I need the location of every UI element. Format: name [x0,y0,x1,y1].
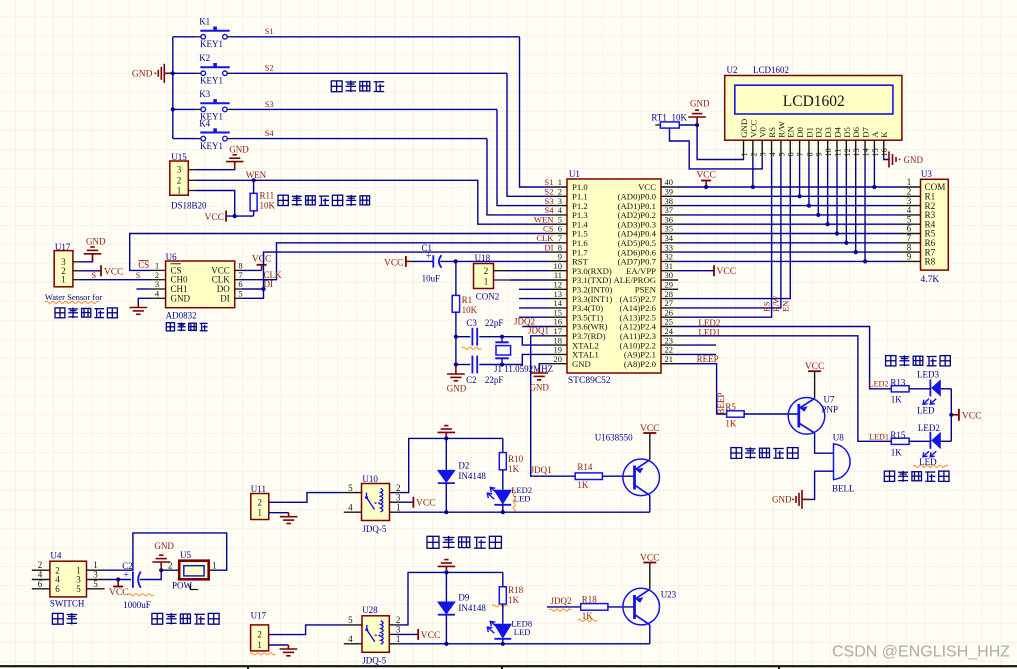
transistor U23 [623,588,660,625]
IC U6 AD0832 [166,261,235,308]
pin 10 U1 [550,270,567,272]
wire U1 pin26 to LCD RS [678,158,772,318]
svg-text:STC89C52: STC89C52 [568,376,611,386]
svg-text:POW: POW [172,581,193,591]
svg-text:AD0832: AD0832 [166,310,197,320]
svg-text:R15: R15 [890,430,906,440]
wire LED3 to VCC rail [950,389,952,415]
pin 12 U1 [550,288,567,290]
svg-text:VCC: VCC [640,424,660,434]
connector U17 water sensor [54,251,73,287]
connector U4 SWITCH [50,561,87,597]
svg-text:VCC: VCC [416,499,436,509]
resistor R14 1K [575,473,602,480]
pin 20 U1 [550,363,567,365]
ground GND below BELL [792,490,810,509]
svg-text:10: 10 [824,148,833,156]
wire K2 to net S2 [232,72,507,74]
svg-text:EN: EN [780,300,790,312]
sheet border bottom [0,665,1017,667]
svg-text:CON2: CON2 [476,292,500,302]
LED LED4 relay indicator [502,470,504,490]
svg-text:1K: 1K [891,447,903,457]
svg-text:KEY1: KEY1 [200,141,223,151]
wire U1 pin23 stub [678,344,716,346]
svg-text:VCC: VCC [962,411,982,421]
svg-text:GND: GND [690,99,710,109]
svg-text:R10: R10 [508,454,524,464]
svg-text:IN4148: IN4148 [458,471,486,481]
svg-text:5: 5 [76,584,81,594]
ground GND at U1 pin20 [539,364,550,369]
svg-text:3: 3 [759,152,768,156]
svg-text:1: 1 [61,275,66,285]
pin 36 U1 [661,223,678,225]
svg-text:K3: K3 [199,89,210,99]
wire net S from U17 pin1 to U6 CH0 [81,279,151,281]
svg-text:GND: GND [572,359,591,369]
svg-text:1K: 1K [725,419,737,429]
svg-text:KEY1: KEY1 [200,39,223,49]
pin 2 U3 [902,195,921,197]
wire LCD pin1 GND to RT1 node [697,125,743,160]
pin 32 U1 [661,260,678,262]
pin 22 U1 [661,353,678,355]
svg-text:+: + [123,570,129,581]
svg-text:BEEP: BEEP [716,393,726,415]
junction RT1 GND [695,123,699,127]
resistor R18 1K horizontal [581,604,608,611]
pin 13 U1 [550,298,567,300]
junction WEN R11 [252,178,256,182]
svg-text:7: 7 [796,152,805,156]
svg-text:1: 1 [396,634,401,644]
transistor U7 PNP [788,398,825,435]
resistor R10 1K vertical [502,438,504,452]
wire net S3 vertical to U1 pin3 [497,109,550,205]
svg-text:2: 2 [396,615,401,625]
svg-text:10K: 10K [260,201,276,211]
pin 1 U3 [902,186,921,188]
svg-text:C1: C1 [422,243,433,253]
junction rail D9 [444,570,448,574]
wire U1 pin12-15 stubs [519,288,550,290]
wire U10 pin2 up to flyback rail [398,438,503,492]
svg-text:5: 5 [93,579,98,589]
pin 29 U1 [661,288,678,290]
pin 31 U1 [661,270,678,272]
svg-text:LED2: LED2 [918,423,940,433]
pin 1 U10 [390,511,398,513]
pin 2 U28 [389,624,397,626]
pin 5 U6 [235,297,242,299]
label 蜂鸣器提醒 (buzzer alert) [731,447,798,459]
wire R14 to U16 base [602,475,634,477]
capacitor C3 22pF [456,336,470,338]
junction C3 left [454,335,458,339]
svg-text:GND: GND [154,541,174,551]
resistor R1 10K [452,295,459,312]
svg-text:CS: CS [138,260,149,270]
wire BELL pin2 to GND [811,471,834,499]
pin 33 U1 [661,251,678,253]
svg-text:2: 2 [749,152,758,156]
junction D9 bottom [444,642,448,646]
pin 39 U1 [661,195,678,197]
junction crystal top [500,335,504,339]
power VCC at U6 pin8 [242,269,262,271]
svg-text:LED: LED [917,406,935,416]
pin 7 U3 [902,242,921,244]
junction rail D2 [444,436,448,440]
wire net S2 vertical to U1 pin2 [507,73,550,196]
connector U17 lower [251,625,269,651]
svg-text:R13: R13 [890,378,906,388]
pin 30 U1 [661,279,678,281]
LED LED2 lower [909,440,930,442]
pin 3 U28 [389,633,397,635]
svg-text:GND: GND [86,237,106,247]
svg-text:VCC: VCC [204,213,224,223]
wire bus to K2 [173,72,196,74]
switch K4 KEY1 [200,128,229,141]
svg-text:VCC: VCC [384,258,404,268]
svg-text:C2: C2 [466,375,477,385]
label 溢水指示灯 (overflow indicator) [886,355,951,366]
svg-text:DS18B20: DS18B20 [171,200,207,210]
wire VCC row pin40 to U3 pin1 [678,186,902,188]
label 电源输入端 (power input) [152,613,219,625]
diode D2 IN4148 [445,438,447,470]
svg-text:VCC: VCC [640,554,660,564]
connector U15 DS18B20 [170,161,189,195]
svg-text:REEP: REEP [697,354,719,364]
svg-text:2: 2 [168,560,173,570]
label 缺水指示灯 (water-short indicator) [884,471,949,482]
LED LED3 [909,388,930,390]
svg-text:GND: GND [447,384,467,394]
pin 9 U3 [902,260,921,262]
wire relay2 output rail to U23 collector [397,643,650,645]
wire U16 collector down to rail [649,495,651,512]
pin 3 U10 [390,501,398,503]
junction LCD VCC [751,185,755,189]
wire key bus vertical [172,37,174,139]
transistor U16 8550 [623,459,660,496]
svg-text:JDQ-5: JDQ-5 [362,656,386,666]
svg-text:4: 4 [348,502,353,512]
pin stubs K1 [196,36,201,38]
pin 9 U1 [550,260,567,262]
wire C3 to XTAL2 (U1 pin18) [479,337,550,345]
svg-text:GND: GND [171,293,191,303]
svg-text:10K: 10K [672,113,688,123]
svg-text:VCC: VCC [421,631,441,641]
svg-text:D9: D9 [458,593,469,603]
svg-text:1: 1 [257,640,262,650]
svg-text:K: K [879,131,889,138]
svg-text:15: 15 [871,148,880,156]
junction VCC stem row40 [704,185,708,189]
junction LED6 bottom [501,642,505,646]
svg-text:16: 16 [880,148,889,156]
svg-text:U10: U10 [362,474,378,484]
svg-text:JDQ1: JDQ1 [531,465,552,475]
svg-text:LED2: LED2 [869,380,889,389]
svg-text:R5: R5 [725,402,736,412]
svg-text:1: 1 [212,560,217,570]
switch K2 KEY1 [200,63,229,76]
pin 26 U1 [661,316,678,318]
svg-text:R1: R1 [462,295,473,305]
svg-text:LCD1602: LCD1602 [753,65,789,75]
svg-text:3: 3 [396,492,401,502]
label 开关 (switch) [52,613,77,625]
svg-text:Water Sensor for: Water Sensor for [45,292,103,302]
svg-text:C3: C3 [466,318,477,328]
wire LCD pin16 K to GND [884,158,889,160]
svg-text:U11: U11 [251,484,266,494]
wire R1 to C3/C2 ground column [455,312,457,364]
svg-text:5: 5 [238,289,242,299]
svg-text:U1638550: U1638550 [595,433,633,443]
connector U18 CON2 [474,264,494,289]
power VCC above U23 [649,563,651,590]
wire net JDQ1 from U1 pin17 down to relay driver [531,336,576,476]
pin 6 U4 [32,588,50,590]
junction crystal bottom [500,362,504,366]
svg-text:U8: U8 [833,433,844,443]
pin 3 mark U5 [191,584,199,590]
pin 1 U6 [151,269,166,271]
capacitor C1 10uF polarized [412,260,433,262]
wires P0.0-P0.7 to resistor network U3 [678,195,902,197]
svg-text:R18: R18 [508,585,524,595]
svg-text:U4: U4 [50,550,61,560]
switch K3 KEY1 [200,99,229,112]
pin 35 U1 [661,233,678,235]
wire net CLK from U6 pin7 to U1 pin7 [242,243,550,280]
pin 38 U1 [661,205,678,207]
ground GND above diode D2 [438,426,456,437]
switch K1 KEY1 [200,27,229,40]
svg-text:GND: GND [772,495,792,505]
diode D9 IN4148 [445,572,447,601]
capacitor C2 22pF [456,364,470,366]
svg-text:JDQ2: JDQ2 [551,596,572,606]
pin 8 U6 [235,269,242,271]
svg-text:LED2: LED2 [698,318,720,328]
wire net LED2 from U1 pin25 to R13 [678,327,892,389]
LCD module U2 LCD1602 [725,76,902,141]
pin stubs K2 [196,72,201,74]
pin stubs K4 [196,138,201,140]
potentiometer RT1 10K [660,122,679,128]
svg-text:GND: GND [904,155,924,165]
pin 2 U1 [550,195,567,197]
svg-text:IN4148: IN4148 [458,603,486,613]
ground GND U11 [280,513,298,524]
svg-text:11: 11 [833,149,842,157]
junction VCC U15 pin1 [233,214,237,218]
wire U23 collector down to rail2 [649,625,651,644]
svg-text:U15: U15 [171,152,187,162]
IC U1 STC89C52 [567,179,661,373]
wire U7 collector to BELL [815,433,834,453]
pin 3 U1 [550,205,567,207]
svg-text:1: 1 [258,508,263,518]
junction RST node [454,259,458,263]
svg-text:R11: R11 [260,191,275,201]
svg-text:S1: S1 [265,27,274,36]
svg-text:DI: DI [264,279,274,289]
pin 23 U1 [661,344,678,346]
pin 3 U3 [902,205,921,207]
wire U18 pin2 to U1 pin10 [494,270,511,272]
svg-text:1K: 1K [508,464,519,474]
wire net WEN from U15 pin2 to U1 pin5 [196,180,550,224]
svg-text:6: 6 [55,584,60,594]
wire U17 pin2 to relay U28 pin5 [269,625,344,635]
wire net S4 vertical to U1 pin4 [487,139,550,215]
svg-text:LCD1602: LCD1602 [783,93,845,110]
svg-text:VCC: VCC [109,588,129,598]
resistor R18 1K vertical [502,572,504,586]
svg-text:U1: U1 [569,169,580,179]
svg-text:LED3: LED3 [917,369,939,379]
svg-text:K4: K4 [199,118,210,128]
pin 6 U6 [235,288,242,290]
svg-text:U5: U5 [180,550,191,560]
label 继电器控制 (relay control) [427,536,501,549]
svg-text:5: 5 [348,483,353,493]
pin 4 U3 [902,214,921,216]
svg-text:D2: D2 [458,461,469,471]
svg-text:LED1: LED1 [698,328,720,338]
svg-text:KEY1: KEY1 [200,76,223,86]
svg-text:U23: U23 [661,589,677,599]
pin 4 U10 [344,511,362,513]
svg-text:R14: R14 [577,462,593,472]
svg-text:R18: R18 [582,595,598,605]
svg-text:U7: U7 [824,395,835,405]
pin 8 U3 [902,251,921,253]
svg-text:4: 4 [348,634,353,644]
ground GND above diode D9 [438,560,456,571]
junction LED bottom [501,510,505,514]
svg-text:22pF: 22pF [485,375,504,385]
wire net S1 vertical to U1 pin1 [520,37,551,187]
svg-text:K1: K1 [199,17,210,27]
svg-text:CSDN @ENGLISH_HHZ: CSDN @ENGLISH_HHZ [832,644,1010,661]
svg-text:13: 13 [852,148,861,156]
ground GND at LCD K [889,152,900,168]
wire net CS from U6 pin1 to U1 pin6 [130,234,550,271]
svg-text:1000uF: 1000uF [123,600,151,610]
svg-text:6: 6 [787,152,796,156]
svg-text:SWITCH: SWITCH [50,599,85,609]
wire net DI from U6 pin5 to U1 pin8 [242,252,550,298]
wire net JDQ2 at U1 pin16 [522,326,550,328]
svg-text:LED: LED [514,627,531,637]
connector U11 [251,494,269,520]
wire U15 pin1 to VCC [196,191,235,217]
wire LCD pin2 VCC down to VCC row [752,158,754,187]
label 防水温度传感器 (waterproof temp sensor) [278,195,370,206]
pin 37 U1 [661,214,678,216]
svg-text:VCC: VCC [104,267,124,277]
power VCC above U16 [649,433,651,460]
pin 18 U1 [550,344,567,346]
svg-text:PNP: PNP [822,405,839,415]
svg-text:VCC: VCC [696,170,716,180]
junction C2 left [454,362,458,366]
wire relay output rail to transistor collector [398,511,650,513]
ground GND above U15 [196,165,235,170]
relay U28 JDQ-5 [362,616,389,653]
wire C1 to U1 pin9 (RST node) [440,260,550,262]
wire C2 to XTAL1 (U1 pin19) [479,354,550,364]
svg-text:R8: R8 [925,257,936,267]
svg-text:1: 1 [484,277,489,287]
pin 19 U1 [550,353,567,355]
svg-text:20: 20 [554,354,563,364]
svg-text:U17: U17 [251,611,267,621]
pin 7 U1 [550,242,567,244]
svg-text:S3: S3 [265,100,274,109]
pin 34 U1 [661,242,678,244]
wire U4 pin1 over to U5 pin1 [105,533,227,570]
resistor R11 10K [250,193,257,211]
relay U10 internals [367,489,383,512]
wire U17 pin1 to GND [269,644,289,646]
pin 17 U1 [550,335,567,337]
wire LED2 to VCC rail [950,415,952,442]
svg-text:2: 2 [258,497,263,507]
svg-text:S4: S4 [265,129,275,138]
junction DO DI [261,287,265,291]
svg-text:2: 2 [484,266,489,276]
svg-text:4: 4 [768,152,777,156]
wire K4 to net S4 [232,138,487,140]
svg-text:WEN: WEN [246,170,267,180]
resistor network U3 4.7K [921,179,949,270]
junction GND U5 pin2 [159,568,163,572]
svg-text:10K: 10K [462,305,478,315]
wire C2 to U5 pin2 and GND [140,570,175,579]
svg-text:5: 5 [777,152,786,156]
ground GND above RT1 node [688,110,706,125]
svg-text:1K: 1K [508,595,519,605]
wire U6 GND to ground [138,298,150,303]
svg-text:5: 5 [348,615,353,625]
wire LCD data pins D0-D7 down to P0 rows [799,158,801,197]
power VCC at U10 pin3 [398,501,414,503]
svg-text:2: 2 [396,483,401,493]
pin 5 U3 [902,223,921,225]
pin 25 U1 [661,326,678,328]
power VCC below C2 [117,580,119,587]
svg-text:12: 12 [843,148,852,156]
resistor R5 1K [727,411,745,417]
svg-text:GND: GND [529,383,549,393]
label 模式选择 (mode select) [331,81,384,93]
svg-text:RT1: RT1 [651,113,666,123]
svg-text:14: 14 [861,148,870,156]
capacitor C2 1000uF polarized [132,572,134,588]
wire net LED1 from U1 pin24 to R15 [678,336,892,442]
ground GND U6 [130,304,148,315]
